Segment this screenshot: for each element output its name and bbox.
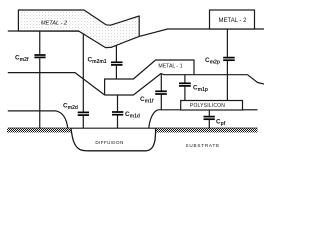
capacitor Cm1f : metal-1 to field — [160, 74, 162, 91]
svg-text:DIFFUSION: DIFFUSION — [95, 140, 123, 145]
wire metal-2 to right box — [139, 29, 264, 36]
field oxide line left — [8, 111, 68, 128]
capacitor Cpf : poly to substrate — [208, 110, 210, 116]
capacitor Cm1p : metal-1 to poly — [184, 75, 186, 83]
metal-2 right box — [210, 10, 255, 29]
svg-text:METAL - 2: METAL - 2 — [218, 18, 247, 24]
svg-text:METAL - 2: METAL - 2 — [41, 21, 68, 27]
field oxide line right — [243, 109, 258, 111]
capacitor Cm2p : metal-2 to poly — [226, 29, 228, 57]
substrate hatch left — [7, 128, 72, 132]
substrate top line — [8, 127, 258, 129]
capacitor Cm1d : metal-1 to diffusion — [117, 95, 119, 111]
polysilicon box — [181, 101, 243, 111]
capacitor Cm2d : metal-2 to diffusion — [82, 34, 84, 112]
capacitor Cm2f : metal-2 to field/substrate — [39, 31, 41, 54]
substrate hatch right — [156, 128, 258, 132]
diffusion trough — [71, 128, 156, 151]
svg-text:METAL - 1: METAL - 1 — [158, 64, 182, 70]
metal-2 left ribbon (stippled) — [18, 10, 139, 48]
wire metal-2 left stub — [8, 30, 79, 32]
svg-text:POLYSILICON: POLYSILICON — [190, 103, 225, 109]
svg-text:SUBSTRATE: SUBSTRATE — [186, 143, 220, 148]
wire metal-1 left — [8, 73, 105, 95]
metal-1 ribbon — [105, 60, 194, 95]
capacitor Cm2m1 : metal-2 to metal-1 — [115, 45, 117, 61]
